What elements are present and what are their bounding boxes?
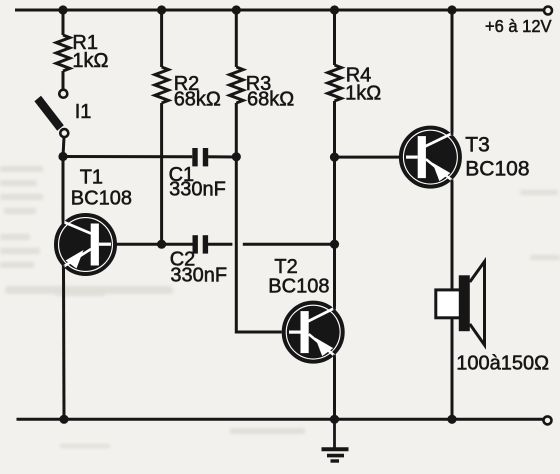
switch I1	[34, 90, 68, 137]
svg-text:BC108: BC108	[465, 158, 529, 181]
svg-text:T3: T3	[465, 134, 490, 157]
node bottom rail T1 emitter	[59, 415, 68, 424]
collector white line	[425, 133, 454, 147]
node C1/R3	[232, 152, 241, 161]
transistor T1 (base right, C/E left)	[56, 214, 115, 274]
wire switch to node A	[63, 137, 64, 156]
wire C1 row right	[208, 155, 236, 158]
wire crossover resume to node C	[243, 243, 335, 246]
wire emitter stub	[333, 355, 336, 362]
svg-text:1kΩ: 1kΩ	[72, 50, 108, 72]
lever blade	[34, 96, 63, 131]
transistor T2 (base left, C/E right)	[284, 302, 343, 362]
base bar white	[301, 311, 309, 353]
wire T1 emitter to bottom rail	[62, 266, 66, 420]
wire T2 emitter down to bottom rail	[333, 355, 336, 419]
wire T3 base node down to node C	[333, 157, 336, 244]
wire R4 bottom to T3 base node	[333, 101, 336, 157]
emitter arrowhead (tip toward bar)	[315, 338, 333, 357]
wire collector stub	[333, 302, 336, 310]
node T3 base / R4	[330, 153, 339, 162]
svg-text:BC108: BC108	[268, 276, 329, 298]
wire R1 top lead	[62, 10, 65, 35]
base lead white	[406, 156, 418, 159]
node top rail x63	[58, 5, 67, 14]
wire collector stub	[451, 127, 454, 135]
node B (R2/C2/T1 base)	[157, 240, 166, 249]
wire T3 base lead	[335, 156, 400, 159]
wire C2 row: T1 base to node B to C1 left plate	[116, 243, 193, 246]
wire R3 top lead	[235, 10, 238, 67]
svg-text:I1: I1	[75, 101, 92, 123]
wire R4 top lead	[333, 10, 336, 65]
node C (C2/R4/T2 collector)	[330, 240, 339, 249]
node A (switch/C1/T1)	[58, 152, 67, 161]
resistor R4	[328, 65, 342, 101]
base lead white	[99, 243, 111, 246]
wire R2 top lead	[160, 10, 163, 67]
ground	[322, 419, 349, 461]
emitter arrowhead (tip toward bar)	[432, 163, 450, 182]
wire node A vertical to T1 collector	[62, 157, 65, 224]
emitter white line	[62, 249, 91, 268]
wire emitter stub	[62, 265, 65, 274]
emitter white line	[309, 334, 336, 357]
wire node C down to T2 collector	[333, 244, 336, 309]
svg-text:T1: T1	[80, 167, 103, 189]
speaker LS	[436, 262, 485, 346]
svg-text:68kΩ: 68kΩ	[174, 89, 221, 111]
wire T3 collector up to rail	[451, 10, 454, 134]
faint page bleed-through text left margin	[0, 166, 560, 448]
node top rail x161	[157, 5, 166, 14]
wire R3 bottom through C1 node down to T2 base corner	[236, 103, 281, 332]
node top rail x334	[330, 5, 339, 14]
base lead white	[289, 331, 301, 334]
emitter arrowhead (tip toward bar)	[66, 250, 84, 269]
resistor R1	[56, 35, 70, 71]
svg-text:+6 à 12V: +6 à 12V	[485, 16, 552, 36]
wire top rail	[15, 9, 544, 12]
svg-text:330nF: 330nF	[170, 265, 227, 287]
wire bottom rail	[17, 418, 544, 421]
terminal circle top	[59, 90, 67, 98]
terminal 0V	[544, 416, 552, 424]
capacitor C1	[192, 148, 208, 166]
wire R2 bottom lead to node B	[160, 103, 163, 244]
node bottom rail ground	[330, 415, 339, 424]
svg-text:330nF: 330nF	[169, 179, 226, 201]
terminal +V	[544, 7, 552, 15]
wire R1 bottom lead	[62, 71, 65, 90]
wire emitter stub	[451, 179, 454, 187]
svg-text:BC108: BC108	[71, 188, 132, 210]
resistor R3	[230, 67, 244, 103]
wire speaker to bottom rail	[451, 318, 454, 420]
collector white line	[62, 221, 91, 233]
transistor T3 (base left, C/E right)	[401, 127, 460, 187]
collector white line	[308, 307, 336, 321]
wire T3 emitter down to speaker	[451, 180, 454, 290]
svg-text:1kΩ: 1kΩ	[345, 83, 381, 105]
wire C2 right plate to crossover gap	[208, 243, 232, 246]
wire C1 row left	[63, 155, 192, 158]
terminal circle bottom	[60, 129, 68, 137]
emitter white line	[426, 159, 454, 181]
svg-text:100à150Ω: 100à150Ω	[456, 353, 549, 375]
node top rail x236	[232, 5, 241, 14]
capacitor C2	[193, 235, 209, 253]
svg-text:68kΩ: 68kΩ	[247, 89, 294, 111]
base bar white	[418, 136, 426, 178]
base bar white	[91, 224, 99, 266]
node bottom rail speaker	[447, 415, 456, 424]
resistor R2	[155, 67, 169, 103]
wire collector stub	[62, 214, 65, 224]
node top rail x452	[447, 5, 456, 14]
